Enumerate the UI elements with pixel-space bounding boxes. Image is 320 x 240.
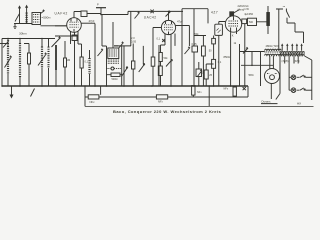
wire — [241, 52, 273, 66]
wire — [202, 56, 204, 86]
junction x — [151, 10, 154, 14]
resistor R15 — [212, 59, 216, 86]
transformer T1 primary arrows — [281, 43, 303, 50]
svg-text:(4V05): (4V05) — [282, 61, 289, 63]
svg-text:Hϑ: Hϑ — [297, 101, 301, 105]
trimmer C4 — [98, 48, 104, 56]
coil L1 (antenna choke) — [26, 13, 28, 23]
core arrow 2 — [38, 52, 47, 65]
switch S4 — [31, 89, 35, 97]
wire — [41, 25, 67, 27]
resistor R2 — [72, 35, 77, 41]
switch S7 — [166, 60, 172, 67]
wire — [55, 25, 67, 27]
wire — [242, 20, 268, 23]
capacitor C10 — [242, 19, 247, 24]
svg-text:30km: 30km — [19, 32, 27, 36]
wire — [94, 24, 96, 87]
ground — [13, 24, 16, 29]
tuning gang C1 — [52, 36, 61, 86]
wire — [81, 68, 83, 86]
resistor R3 — [80, 57, 83, 68]
wire — [132, 44, 134, 87]
resistor R5 — [159, 53, 163, 62]
core arrow 1 — [5, 55, 12, 67]
svg-text:850Ω: 850Ω — [224, 55, 230, 59]
capacitor block — [248, 18, 257, 25]
arrow — [166, 10, 171, 16]
resistor R1 — [28, 53, 31, 64]
capacitor C8 — [192, 46, 198, 52]
speaker — [265, 56, 280, 99]
trimmer arrow — [119, 43, 124, 48]
wire anode2 — [175, 26, 189, 47]
trimmer capacitor — [0, 39, 9, 47]
switch S2 — [286, 9, 303, 44]
resistor R14 — [204, 64, 213, 86]
capacitor C11 — [158, 66, 162, 76]
wire — [237, 24, 245, 86]
junction K2 — [243, 87, 246, 90]
wire anode — [81, 22, 95, 24]
svg-text:2,3: 2,3 — [131, 36, 135, 40]
label Dynam — [261, 100, 278, 104]
resistor R8 — [85, 95, 156, 99]
wire — [24, 44, 29, 87]
svg-text:P: P — [97, 3, 99, 7]
trimmer — [243, 47, 248, 54]
resistor R12 — [64, 41, 67, 86]
wire — [207, 9, 209, 24]
wire — [74, 32, 76, 86]
svg-text:0,05: 0,05 — [131, 39, 137, 43]
wire — [41, 39, 43, 87]
wire — [114, 46, 143, 64]
wire — [7, 39, 9, 87]
wire — [161, 34, 172, 86]
trimmer arrow box — [41, 9, 45, 13]
wire rail — [55, 35, 78, 37]
resistor R9 — [156, 86, 248, 99]
svg-text:~: ~ — [283, 4, 286, 9]
coil L2 (antenna coil) — [32, 13, 41, 25]
wire — [19, 39, 21, 87]
wire secondary — [280, 56, 312, 100]
wire — [158, 45, 160, 86]
junction K1 — [162, 39, 165, 42]
junction dots — [1, 11, 253, 87]
svg-text:1M: 1M — [67, 58, 71, 62]
wire — [240, 52, 265, 87]
bus 1 — [2, 85, 248, 87]
wire drop — [84, 86, 86, 106]
svg-text:NFx: NFx — [224, 87, 229, 90]
coil assembly IFT1 — [107, 46, 122, 86]
resistor R11 — [233, 86, 236, 97]
wire grid cap — [73, 12, 75, 18]
svg-text:UAF42: UAF42 — [55, 12, 68, 16]
coil L5 (osc) — [88, 58, 90, 74]
transformer T1 — [280, 51, 305, 55]
svg-text:0,1: 0,1 — [157, 38, 161, 41]
lamp LP2 — [289, 88, 312, 93]
wire grid — [168, 11, 170, 20]
wire — [14, 23, 32, 25]
resistor R4 — [151, 57, 155, 66]
switch S3 — [276, 94, 280, 100]
trimmer C7 — [185, 46, 191, 54]
resistor R7 — [202, 46, 206, 56]
switch S5 — [122, 67, 128, 77]
output transformer T2 — [265, 44, 282, 56]
fuse F1 — [267, 6, 270, 34]
wire — [100, 86, 102, 95]
svg-text:0,1: 0,1 — [85, 61, 89, 64]
coil L4 — [19, 43, 21, 77]
anode cap — [230, 10, 240, 16]
svg-text:480Ω (T20): 480Ω (T20) — [266, 44, 279, 48]
trimmer C12 — [197, 69, 202, 77]
resistor R6 — [196, 69, 202, 77]
wire — [102, 15, 113, 49]
svg-text:500: 500 — [249, 21, 254, 24]
svg-text:500Ω: 500Ω — [112, 78, 118, 81]
wire — [153, 28, 161, 87]
wire — [70, 31, 72, 44]
wire — [208, 86, 210, 106]
wire — [114, 46, 131, 86]
wire — [89, 50, 91, 86]
wire — [160, 45, 162, 86]
svg-text:Baco, Conqueror 220 W. Wechsel: Baco, Conqueror 220 W. Wechselstrom 2 Kr… — [113, 109, 222, 114]
switch S6 — [139, 64, 145, 72]
svg-text:584: 584 — [249, 73, 254, 77]
line3 — [85, 105, 314, 107]
svg-text:Dynam.: Dynam. — [262, 100, 272, 104]
tube V3 UL41 — [225, 16, 241, 32]
node T — [96, 8, 106, 15]
resistor R13 — [107, 73, 122, 77]
lamp LP1 — [289, 75, 312, 80]
svg-text:(6V3): (6V3) — [294, 61, 300, 63]
svg-text:4Z7: 4Z7 — [211, 10, 218, 14]
capacitor C13 — [212, 36, 216, 60]
wire — [101, 9, 208, 86]
ground arrow — [10, 86, 14, 99]
wire — [130, 11, 132, 46]
svg-text:4μF450: 4μF450 — [244, 12, 253, 16]
wire — [48, 39, 50, 87]
svg-text:NFx: NFx — [90, 100, 96, 104]
switch S1 — [135, 11, 140, 18]
tube V2 UCH42 — [161, 20, 175, 34]
svg-text:UAC42: UAC42 — [144, 16, 157, 20]
antenna — [15, 5, 28, 24]
wire — [78, 31, 82, 57]
svg-text:K: K — [232, 34, 234, 38]
wire — [230, 32, 232, 86]
wire — [193, 9, 195, 86]
svg-text:47pF: 47pF — [89, 19, 95, 23]
padder capacitor — [107, 67, 122, 70]
capacitor C3 — [74, 11, 101, 17]
tube V1 UAF42 — [67, 18, 82, 33]
wire — [198, 62, 200, 86]
svg-text:≈500m: ≈500m — [42, 16, 51, 20]
wire grid3 — [194, 36, 206, 47]
coil L3 — [7, 46, 9, 74]
resistor R10 — [192, 86, 195, 97]
svg-text:1 W: 1 W — [244, 7, 249, 11]
coil L8 — [41, 47, 43, 69]
capacitor C6 — [132, 61, 135, 69]
wire AVC rail — [2, 39, 55, 87]
wire — [276, 9, 283, 50]
capacitor C9 elco — [215, 22, 226, 87]
coil L7 — [48, 47, 50, 69]
